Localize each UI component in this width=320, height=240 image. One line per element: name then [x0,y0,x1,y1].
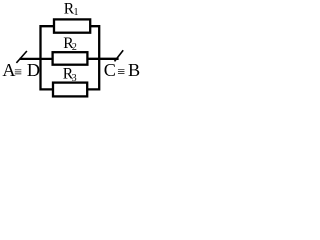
svg-text:D: D [27,60,40,80]
wire terminal C [87,58,118,60]
svg-text:3: 3 [72,73,77,84]
svg-text:C: C [104,60,116,80]
wire right bus [87,26,99,89]
resistor R2 [53,35,88,65]
svg-text:≡: ≡ [117,65,125,80]
svg-text:2: 2 [72,42,77,53]
switch slash right [115,50,124,61]
switch slash left [16,51,27,63]
wire terminal A [20,58,53,60]
svg-text:≡: ≡ [14,65,22,80]
wire left bus [41,26,55,89]
resistor R3 [53,65,87,96]
svg-text:1: 1 [74,7,79,18]
svg-text:B: B [128,60,140,80]
resistor R1 [54,0,90,32]
